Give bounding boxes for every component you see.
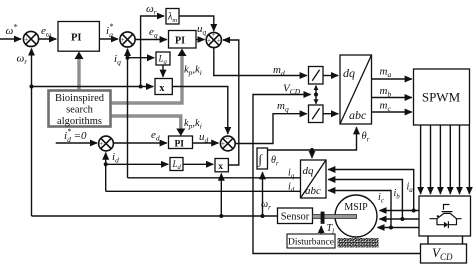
wire sum3 output down to m_d line	[214, 48, 307, 76]
wire i_d*=0 input	[56, 142, 97, 144]
node omega_r to lambda branch	[139, 85, 143, 89]
sum junction 3	[206, 32, 221, 47]
wire L_q to X1	[162, 65, 164, 77]
IGBT junction dot	[437, 215, 439, 217]
PI block PI2	[169, 31, 197, 49]
svg-text:x: x	[159, 83, 165, 94]
wire L_d to X2	[183, 163, 213, 165]
divider block 2	[309, 105, 324, 123]
wire u_d PI3 to sum5	[193, 142, 219, 144]
wire theta_r into dq/abc2	[311, 150, 313, 158]
wire kp,ki gray feed to PI1	[77, 57, 80, 90]
motor MSIP circle	[335, 195, 377, 237]
node theta_r branch	[310, 148, 314, 152]
wire phase a to motor	[380, 210, 420, 212]
wire e_d sum4 to PI3	[113, 142, 167, 144]
sum junction 5	[220, 136, 235, 151]
svg-text:SPWM: SPWM	[422, 90, 461, 105]
T_l load torque arrow	[320, 226, 322, 234]
wire inverter to V_CD left connector	[427, 236, 429, 244]
label div2 slash	[312, 108, 319, 119]
wire kp,ki gray feed to PI3	[111, 116, 181, 130]
wire e_omega PI1 input	[39, 38, 56, 40]
wire inverter to V_CD right connector	[462, 236, 464, 244]
wire i_q to L_q	[128, 57, 155, 59]
svg-text:−: −	[104, 147, 108, 155]
wire lambda_m to sum3 top	[179, 16, 214, 31]
wire sum5 output to m_q divider	[235, 114, 306, 144]
lambda_m block	[166, 9, 179, 25]
dq/abc block 2	[301, 160, 327, 198]
svg-text:iq: iq	[114, 53, 121, 67]
node V_CD junction	[314, 93, 318, 97]
svg-text:+: +	[217, 37, 221, 45]
wire kp,ki gray feed to PI2	[111, 54, 182, 103]
svg-text:kp,ki: kp,ki	[184, 65, 202, 78]
PI block PI3	[169, 136, 193, 149]
wire V_CD to div2	[315, 95, 317, 104]
wire omega_r up to lambda_m	[141, 16, 164, 87]
PI block PI1	[58, 22, 99, 52]
wire omega_r to X1	[32, 86, 154, 88]
IGBT symbol	[430, 205, 462, 229]
svg-text:θr: θr	[271, 155, 279, 168]
svg-text:Sensor: Sensor	[281, 212, 310, 223]
svg-text:dq: dq	[303, 165, 315, 177]
V_CD source block	[421, 244, 467, 263]
wire i_d feedback up to sum4	[105, 153, 107, 192]
node i_q Lq branch	[126, 56, 130, 60]
wire div2 to dq/abc1	[323, 113, 338, 115]
shaft coupling tick	[321, 212, 325, 224]
wire V_CD sense from block to dividers	[253, 95, 421, 254]
dq/abc block 1	[340, 55, 372, 124]
svg-text:md: md	[273, 64, 285, 78]
svg-text:i*q: i*q	[106, 22, 113, 39]
node omega_r integrator branch	[261, 214, 265, 218]
svg-text:PI: PI	[175, 36, 185, 47]
disturbance block	[287, 234, 335, 248]
svg-text:+: +	[221, 140, 225, 148]
sum junction 1	[23, 31, 38, 46]
svg-text:eq: eq	[149, 26, 158, 40]
svg-text:θr: θr	[362, 131, 370, 144]
svg-text:Tl: Tl	[327, 223, 335, 236]
motor shaft	[313, 215, 357, 219]
svg-text:PI: PI	[71, 33, 82, 44]
divider block 1	[309, 67, 324, 85]
wire phase b to motor	[380, 218, 420, 220]
wire X1 output to sum5 top	[172, 87, 228, 135]
svg-text:ud: ud	[199, 131, 209, 145]
node i_c tap	[389, 226, 393, 230]
svg-text:+: +	[212, 31, 216, 39]
wire V_CD to div1	[315, 86, 317, 95]
wire e_q sum2 to PI2	[135, 39, 167, 41]
svg-text:eω: eω	[41, 25, 51, 39]
wire omega_r into integrator	[262, 172, 264, 216]
multiplier X1	[155, 79, 172, 95]
wire u_q PI2 to sum3	[196, 39, 205, 41]
node i_b tap	[400, 217, 404, 221]
svg-text:Disturbance: Disturbance	[288, 238, 334, 248]
sum junction 2	[120, 32, 135, 47]
wire m_b	[372, 97, 412, 99]
wire X2 output feedback to sum3 right	[223, 40, 239, 165]
svg-text:−: −	[29, 42, 33, 50]
wire i_c to dq/abc2	[328, 191, 391, 228]
svg-text:+: +	[207, 37, 211, 45]
svg-text:iq: iq	[288, 168, 295, 181]
node omega_r X2 branch	[219, 214, 223, 218]
svg-text:ωr: ωr	[146, 3, 157, 17]
svg-text:Bioinspired: Bioinspired	[55, 93, 105, 104]
inverter block	[419, 196, 471, 236]
wire theta_r from integrator	[268, 127, 357, 150]
svg-text:i*d =0: i*d =0	[64, 127, 87, 144]
wire omega_r from sensor	[32, 215, 278, 217]
node i_a tap	[412, 209, 416, 213]
svg-text:ma: ma	[380, 66, 392, 80]
svg-text:Lq: Lq	[158, 54, 168, 66]
svg-text:algorithms: algorithms	[57, 116, 102, 127]
wire i_d from dq/abc2	[106, 190, 301, 192]
sum junction 4	[99, 136, 114, 151]
wire omega_r up into X2 bottom	[220, 174, 222, 216]
svg-text:−: −	[125, 43, 129, 51]
svg-text:PI: PI	[175, 140, 185, 150]
svg-text:VCD: VCD	[432, 245, 453, 262]
svg-text:ed: ed	[151, 129, 160, 143]
svg-text:x: x	[218, 162, 223, 172]
L_q block	[156, 52, 170, 65]
bioinspired search algorithms block	[49, 91, 111, 127]
svg-text:kp,ki: kp,ki	[184, 118, 202, 131]
wire i_q* PI1 to sum2	[99, 38, 118, 40]
wire i_q feedback up to sum2	[127, 49, 129, 178]
svg-text:abc: abc	[305, 185, 321, 197]
wire omega* input	[0, 38, 21, 40]
wire i_q from dq/abc2	[128, 177, 301, 179]
svg-text:uq: uq	[197, 23, 207, 37]
IGBT diode triangle	[444, 222, 448, 228]
svg-text:VCD: VCD	[283, 83, 301, 97]
sum signs	[24, 31, 229, 155]
svg-text:∫: ∫	[258, 152, 264, 168]
wire i_d to L_d	[106, 163, 169, 165]
svg-text:id: id	[288, 182, 295, 195]
svg-text:mc: mc	[380, 100, 392, 114]
svg-text:search: search	[66, 105, 94, 116]
L_d block	[170, 158, 183, 171]
svg-text:ib: ib	[394, 188, 401, 201]
svg-text:MSIP: MSIP	[344, 202, 368, 213]
svg-text:dq: dq	[343, 66, 355, 80]
wire div1 to dq/abc1	[323, 75, 338, 77]
svg-text:ω*: ω*	[6, 23, 18, 38]
svg-text:ωr: ωr	[17, 53, 28, 67]
svg-text:λm: λm	[167, 12, 177, 25]
sensor block	[278, 208, 313, 224]
SPWM block	[414, 69, 470, 125]
wire i_a to dq/abc2	[328, 170, 414, 211]
wire phase c to motor	[378, 227, 420, 229]
multiplier X2	[215, 159, 228, 172]
svg-text:id: id	[112, 151, 119, 165]
svg-text:ic: ic	[378, 192, 385, 205]
wire omega_r up from sensor line to sum1	[31, 49, 33, 217]
svg-text:ωr: ωr	[261, 199, 271, 212]
svg-text:ia: ia	[407, 182, 414, 195]
label div1 slash	[312, 70, 319, 81]
wire SPWM gate lines	[420, 125, 422, 194]
node i_d Ld branch	[104, 162, 108, 166]
svg-text:mb: mb	[380, 85, 392, 99]
svg-text:−: −	[226, 135, 230, 143]
wire m_a	[372, 78, 412, 80]
svg-text:mq: mq	[277, 100, 289, 114]
node omega_r branch	[30, 85, 34, 89]
svg-text:Ld: Ld	[172, 159, 182, 171]
black arrowheads for gray kp ki feeds	[75, 49, 187, 137]
wire i_b to dq/abc2	[328, 180, 402, 220]
svg-text:abc: abc	[349, 108, 367, 122]
integrator block	[257, 148, 268, 169]
wire m_c	[372, 111, 412, 113]
ground hatch under motor	[338, 238, 379, 248]
